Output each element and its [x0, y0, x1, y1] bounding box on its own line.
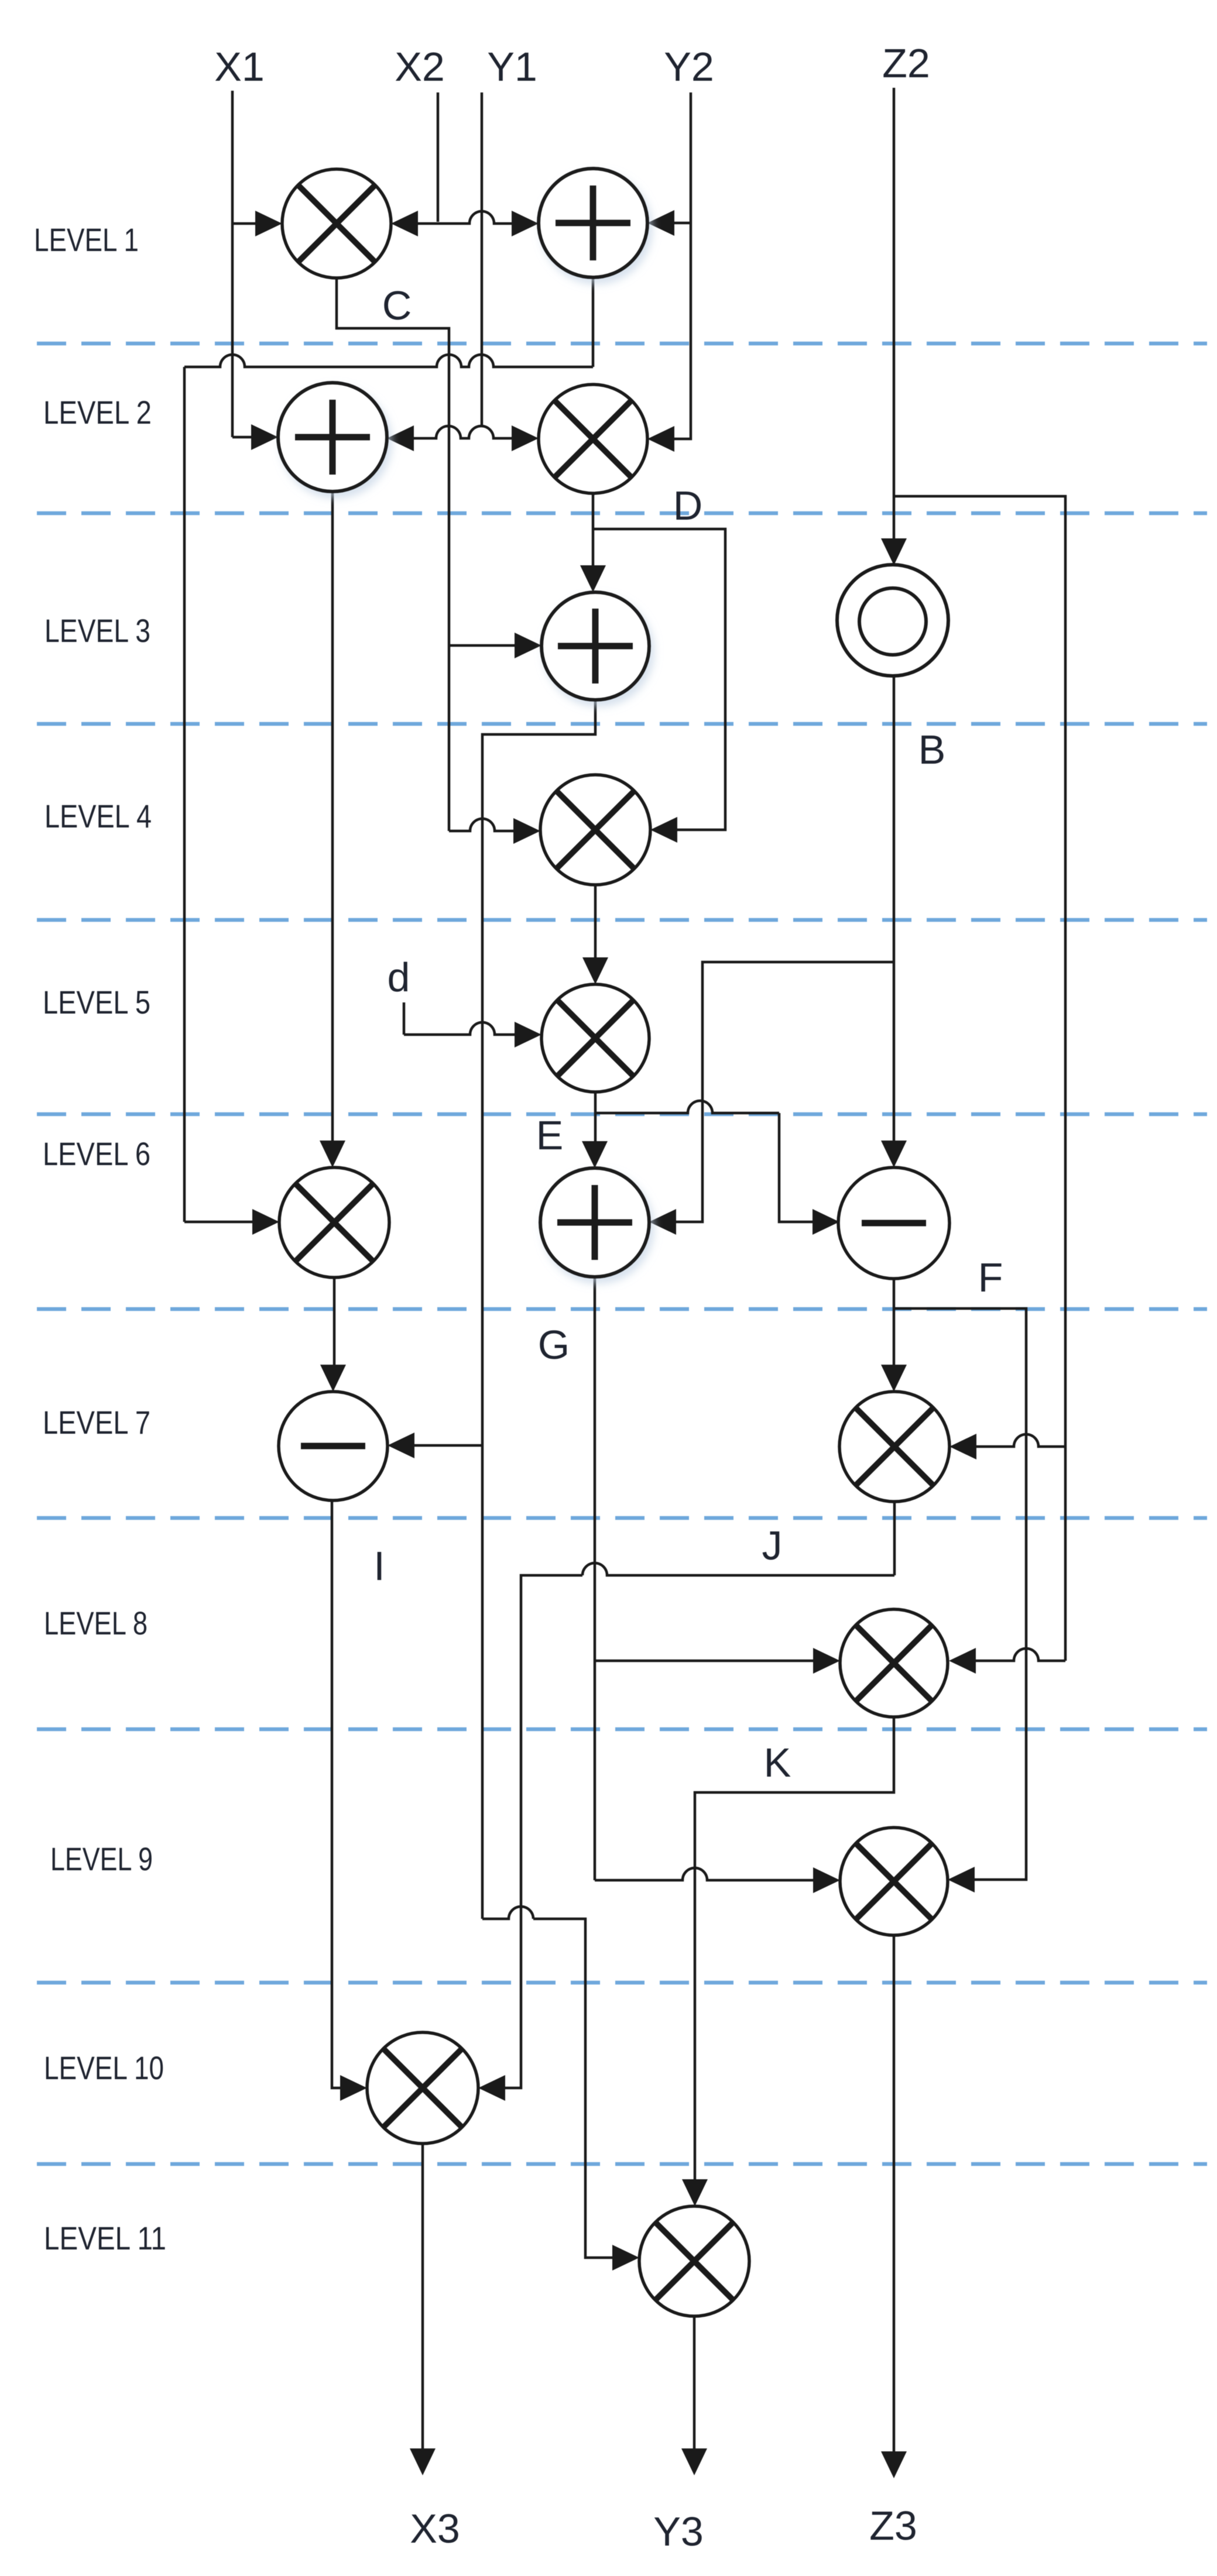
- svg-text:LEVEL 2: LEVEL 2: [43, 394, 152, 431]
- svg-text:X2: X2: [395, 44, 445, 90]
- svg-text:LEVEL 9: LEVEL 9: [50, 1840, 153, 1877]
- svg-text:LEVEL 1: LEVEL 1: [34, 221, 139, 258]
- svg-text:X3: X3: [410, 2506, 460, 2551]
- svg-text:Z2: Z2: [882, 40, 930, 86]
- svg-text:I: I: [373, 1543, 385, 1589]
- svg-text:LEVEL 11: LEVEL 11: [44, 2220, 166, 2256]
- svg-text:F: F: [978, 1255, 1003, 1300]
- svg-text:K: K: [764, 1740, 791, 1785]
- svg-text:X1: X1: [214, 44, 265, 90]
- svg-text:LEVEL 3: LEVEL 3: [44, 612, 150, 649]
- svg-text:LEVEL 7: LEVEL 7: [43, 1404, 150, 1441]
- svg-text:J: J: [762, 1523, 783, 1568]
- svg-text:Y2: Y2: [664, 44, 714, 90]
- svg-text:LEVEL 5: LEVEL 5: [43, 984, 150, 1021]
- svg-text:LEVEL 4: LEVEL 4: [44, 798, 152, 834]
- svg-text:LEVEL 8: LEVEL 8: [44, 1605, 148, 1641]
- svg-text:E: E: [536, 1112, 564, 1158]
- svg-text:LEVEL 10: LEVEL 10: [44, 2049, 164, 2086]
- svg-text:D: D: [673, 483, 703, 528]
- svg-text:Y3: Y3: [653, 2509, 704, 2554]
- svg-text:LEVEL 6: LEVEL 6: [43, 1135, 150, 1172]
- svg-text:C: C: [382, 283, 412, 328]
- svg-text:B: B: [918, 727, 946, 772]
- svg-text:G: G: [538, 1322, 570, 1368]
- svg-text:Z3: Z3: [869, 2503, 917, 2548]
- svg-text:Y1: Y1: [487, 44, 537, 90]
- svg-text:d: d: [388, 954, 410, 1000]
